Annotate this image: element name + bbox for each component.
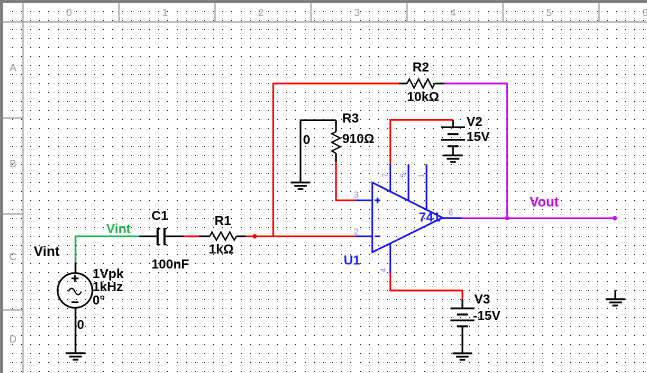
svg-text:A: A: [10, 63, 17, 74]
svg-text:U1: U1: [344, 253, 361, 268]
svg-text:1kΩ: 1kΩ: [209, 242, 234, 257]
svg-text:741: 741: [419, 209, 441, 224]
svg-text:B: B: [10, 159, 17, 170]
svg-text:910Ω: 910Ω: [342, 131, 374, 146]
svg-text:5: 5: [546, 8, 552, 19]
svg-text:3: 3: [354, 190, 359, 199]
svg-text:0: 0: [77, 317, 84, 332]
svg-text:0: 0: [303, 132, 310, 147]
svg-text:R3: R3: [342, 111, 359, 126]
svg-text:6: 6: [449, 209, 454, 218]
svg-text:0: 0: [66, 8, 72, 19]
svg-text:2: 2: [354, 227, 359, 236]
svg-text:Vout: Vout: [530, 194, 559, 209]
svg-text:7: 7: [381, 173, 390, 177]
svg-text:100nF: 100nF: [152, 257, 190, 272]
svg-text:Vint: Vint: [106, 221, 131, 236]
svg-text:Vint: Vint: [34, 244, 60, 259]
svg-text:V3: V3: [474, 292, 490, 307]
svg-text:4: 4: [450, 8, 456, 19]
svg-text:10kΩ: 10kΩ: [407, 89, 439, 104]
svg-text:15V: 15V: [467, 129, 490, 144]
svg-text:3: 3: [354, 8, 360, 19]
svg-text:D: D: [9, 335, 16, 346]
svg-text:6: 6: [642, 8, 647, 19]
svg-text:C: C: [9, 252, 16, 263]
svg-text:C1: C1: [152, 208, 169, 223]
svg-text:1: 1: [417, 173, 426, 177]
svg-text:R1: R1: [215, 213, 232, 228]
svg-text:4: 4: [378, 268, 387, 272]
svg-text:-15V: -15V: [473, 308, 501, 323]
svg-text:2: 2: [258, 8, 264, 19]
svg-text:R2: R2: [413, 60, 430, 75]
svg-text:1: 1: [162, 8, 168, 19]
svg-text:5: 5: [399, 173, 408, 177]
svg-text:0°: 0°: [93, 292, 105, 307]
svg-text:V2: V2: [467, 114, 483, 129]
